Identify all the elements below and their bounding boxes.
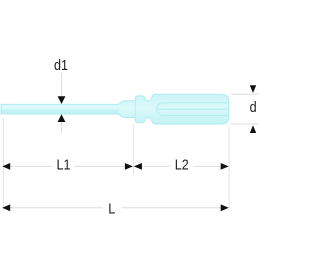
- middle extension line: [132, 124, 134, 175]
- d1 arrow up: [58, 114, 66, 122]
- L1 arrow right: [125, 163, 133, 170]
- L dimension line: [4, 207, 104, 209]
- d1 leader line: [61, 73, 63, 97]
- L1 arrow left: [2, 163, 10, 170]
- d1 lower stub line: [61, 122, 63, 133]
- screwdriver body (shaft + handle silhouette): [1, 94, 229, 124]
- d extension line top: [231, 93, 259, 95]
- right extension line: [228, 126, 230, 211]
- L arrow left: [2, 204, 10, 211]
- L2 arrow left: [134, 163, 142, 170]
- d arrow down: [250, 85, 256, 93]
- d1 arrow down: [58, 96, 66, 104]
- L1 dimension line: [4, 165, 53, 167]
- shaft shading band: [2, 105, 120, 114]
- svg-text:d1: d1: [54, 56, 68, 73]
- d arrow up: [250, 125, 256, 133]
- svg-text:L1: L1: [56, 156, 70, 173]
- svg-text:d: d: [250, 98, 257, 115]
- d extension line bottom: [231, 123, 259, 125]
- L2 arrow right: [221, 163, 229, 170]
- collar face line: [134, 101, 136, 118]
- L arrow right: [221, 204, 229, 211]
- svg-text:L: L: [108, 199, 115, 216]
- svg-text:L2: L2: [175, 156, 189, 173]
- left extension line: [3, 118, 5, 211]
- L2 dimension line: [133, 165, 170, 167]
- handle grip grooves: [157, 103, 235, 116]
